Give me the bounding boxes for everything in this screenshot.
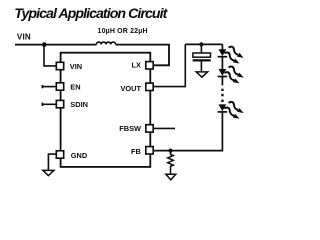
terminal tick SDIN <box>41 103 43 106</box>
wire GND pin to ground <box>48 154 56 171</box>
terminal tick EN <box>41 85 43 88</box>
wire VIN node to VIN pin <box>44 45 56 66</box>
wire inductor to LX pin <box>116 45 170 66</box>
wire SDIN stub <box>42 103 56 105</box>
ground symbol at GND pin <box>43 170 54 175</box>
pin LX <box>146 62 153 69</box>
ground symbol at C1 <box>196 72 207 77</box>
pin FBSW <box>146 125 153 132</box>
pin SDIN <box>56 100 63 107</box>
svg-text:FB: FB <box>131 147 141 156</box>
wire FBSW stub <box>153 127 175 129</box>
wire D1 to D2 <box>221 57 223 70</box>
LED D2 <box>218 69 228 77</box>
svg-text:FBSW: FBSW <box>119 124 141 133</box>
wire D2 down with dotted continuation <box>221 77 223 86</box>
svg-text:GND: GND <box>71 151 88 160</box>
svg-text:Typical Application Circuit: Typical Application Circuit <box>14 6 168 22</box>
wire VIN input <box>15 44 97 46</box>
pin VIN <box>56 62 63 69</box>
LED D3 <box>218 104 228 112</box>
svg-text:SDIN: SDIN <box>70 100 88 109</box>
LED D3 light arrows <box>224 102 243 119</box>
pin GND <box>56 151 63 158</box>
pin VOUT <box>146 83 153 90</box>
LED D1 <box>218 49 228 57</box>
LED D2 light arrows <box>224 66 243 83</box>
wire LED string top <box>221 44 223 49</box>
dotted continuation marks <box>221 89 223 102</box>
svg-text:VIN: VIN <box>70 62 82 71</box>
capacitor C1 <box>193 44 211 72</box>
junction dot at FB node <box>168 149 172 153</box>
svg-text:VIN: VIN <box>17 33 31 42</box>
svg-text:LX: LX <box>132 61 142 70</box>
wire EN stub <box>42 86 56 88</box>
junction dot at capacitor <box>199 42 203 46</box>
IC U1 body <box>61 53 151 167</box>
inductor L1 <box>96 42 115 44</box>
LED D1 light arrows <box>224 47 243 64</box>
wire VOUT to output node <box>153 44 185 86</box>
junction dot at VIN node <box>42 42 47 47</box>
wire output node top rail <box>185 43 222 45</box>
svg-text:10µH OR 22µH: 10µH OR 22µH <box>98 28 148 35</box>
wire LED string bottom to FB pin <box>153 112 222 151</box>
svg-text:VOUT: VOUT <box>120 84 141 93</box>
pin EN <box>56 83 63 90</box>
resistor R1 <box>168 151 174 175</box>
pin FB <box>146 147 153 154</box>
ground symbol at R1 <box>166 174 176 180</box>
svg-text:EN: EN <box>70 83 80 92</box>
